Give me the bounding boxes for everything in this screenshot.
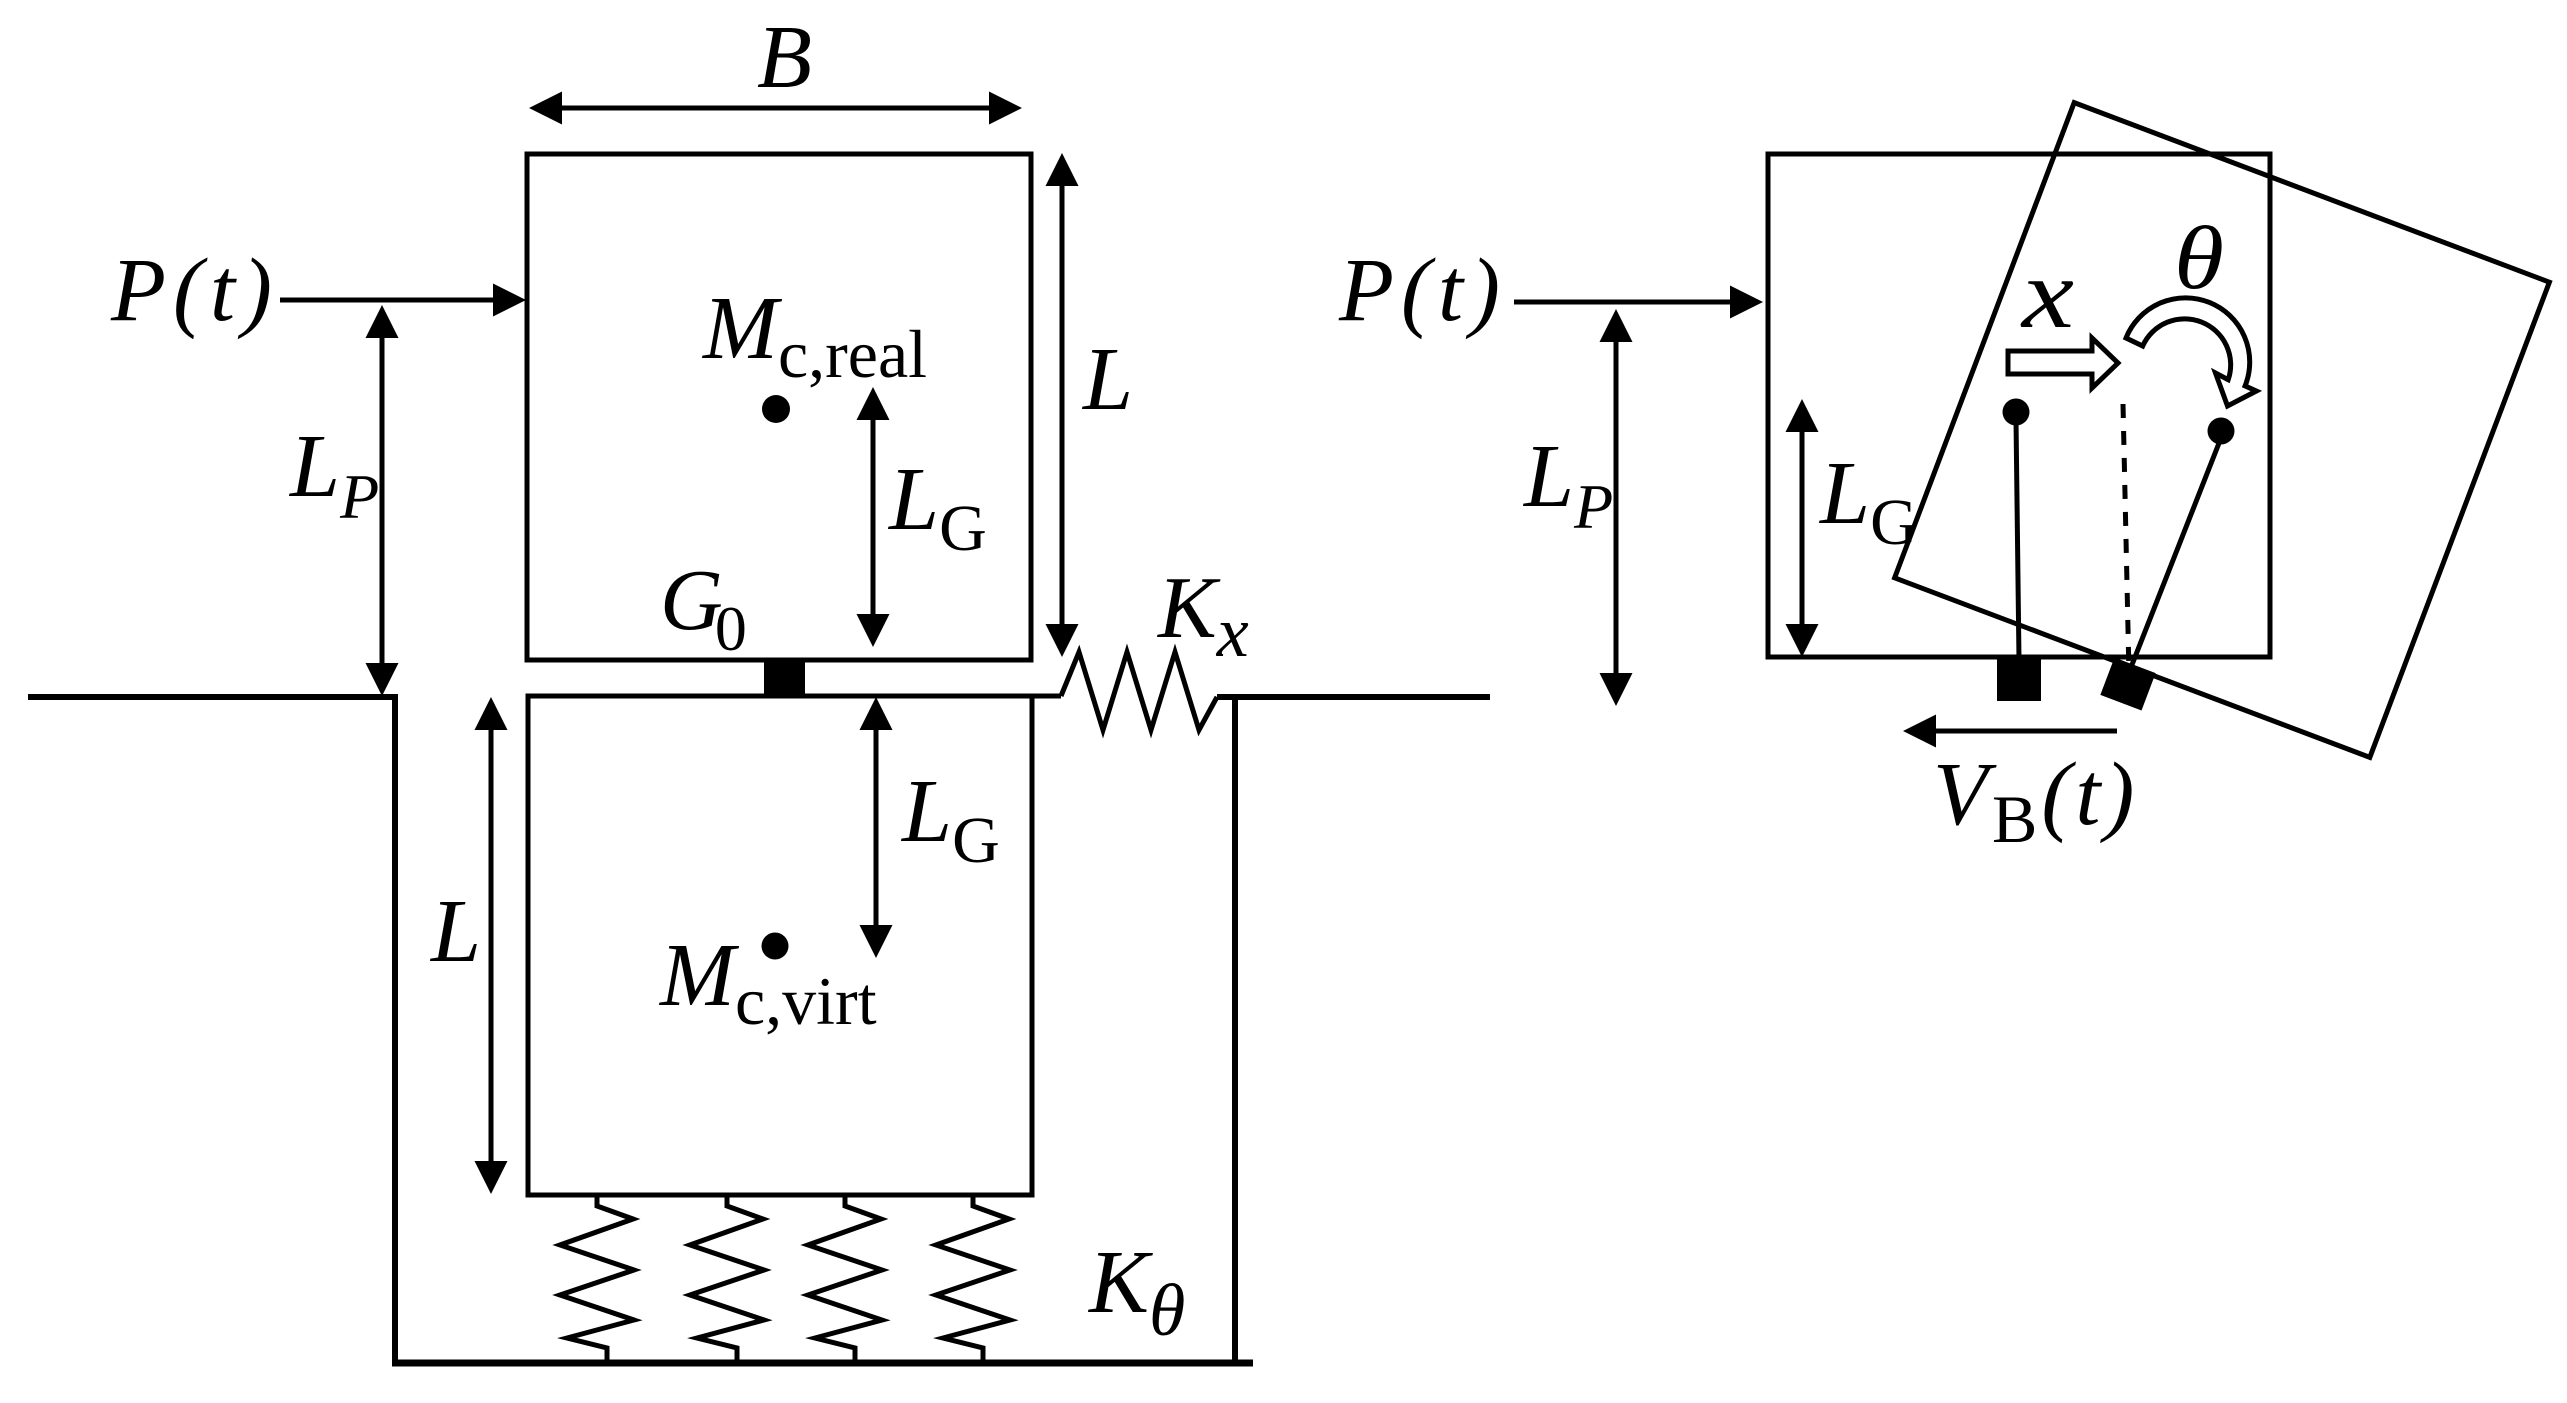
centroid dot of M_c,real	[762, 395, 790, 423]
dimension arrow L_G (lower box)	[860, 697, 893, 958]
trench bottom	[392, 1360, 1253, 1367]
load arrow P(t) (right)	[1514, 286, 1763, 319]
pendulum line (rotated)	[2126, 438, 2221, 680]
spring K_theta #3	[808, 1196, 882, 1363]
mass block M_c,virt (lower box)	[528, 696, 1032, 1195]
svg-text:x: x	[2020, 238, 2074, 349]
dimension arrow L_P (right)	[1600, 309, 1633, 706]
dimension arrow L_G (upper box)	[857, 387, 890, 647]
trench right wall	[1232, 694, 1238, 1363]
hinge block (rotated, black square)	[2100, 658, 2155, 711]
svg-text:θ: θ	[2174, 209, 2224, 308]
centroid dot (initial)	[2003, 399, 2030, 426]
caisson square (rotated position)	[1895, 103, 2550, 758]
mass block M_c,real (upper box)	[527, 154, 1031, 660]
caisson square (initial position)	[1768, 154, 2270, 657]
dimension arrow L_P (left)	[366, 305, 399, 696]
dashed vertical reference line	[2123, 404, 2129, 674]
load arrow P(t)	[280, 284, 526, 317]
trench left wall	[392, 694, 398, 1364]
ground line (left segment)	[28, 694, 395, 700]
centroid dot (rotated)	[2208, 418, 2235, 445]
ground line (right segment)	[1217, 694, 1490, 700]
spring K_theta #2	[690, 1196, 764, 1363]
hinge block (initial, black square)	[1997, 659, 2041, 701]
centroid dot of M_c,virt	[762, 933, 789, 960]
svg-text:L: L	[1081, 330, 1133, 429]
spring K_theta #1	[560, 1196, 634, 1363]
svg-text:P(t): P(t)	[1338, 241, 1507, 340]
dimension arrow L_G (right)	[1786, 399, 1819, 657]
hinge block G0 (black square)	[764, 661, 805, 697]
dimension arrow L (left of lower box)	[475, 697, 508, 1194]
svg-text:L: L	[429, 882, 481, 981]
svg-text:B: B	[757, 8, 812, 107]
svg-text:P(t): P(t)	[110, 241, 279, 340]
displacement block arrow x	[2008, 338, 2118, 388]
spring K_x (horizontal)	[1061, 652, 1217, 730]
base shear arrow V_B(t)	[1903, 715, 2117, 748]
wire stub to spring K_x	[1030, 694, 1061, 699]
dimension arrow L (right of upper box)	[1046, 153, 1079, 657]
spring K_theta #4	[936, 1196, 1010, 1363]
rotation arrow theta (curved)	[2126, 298, 2256, 406]
dimension arrow B (width of caisson)	[529, 92, 1022, 125]
pendulum line (initial)	[2016, 420, 2019, 660]
